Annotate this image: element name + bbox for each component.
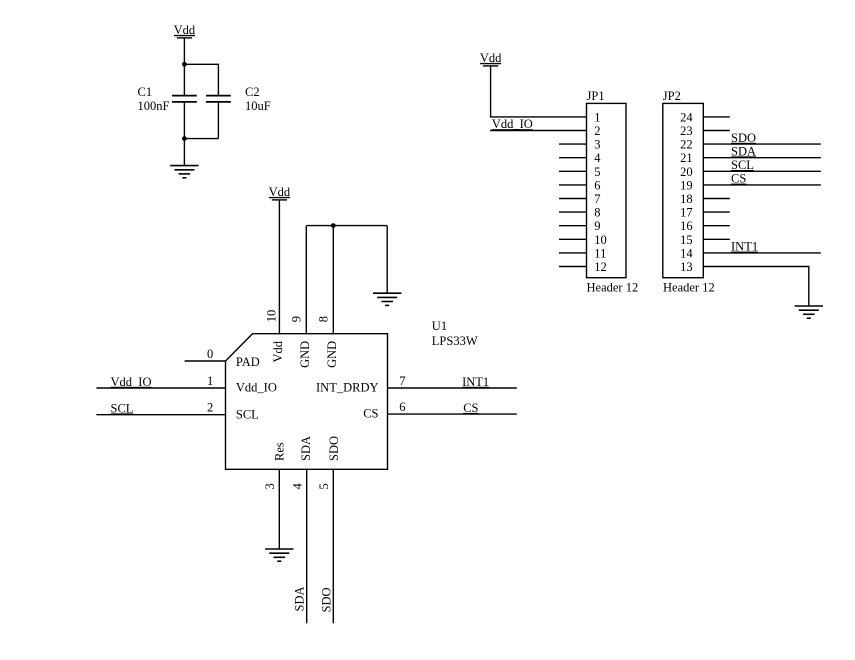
JP2 pin 17 stub	[703, 211, 730, 213]
svg-text:12: 12	[594, 260, 607, 274]
wire Vdd to JP1 pin 1	[491, 66, 587, 117]
svg-text:14: 14	[680, 246, 693, 260]
svg-text:5: 5	[594, 165, 600, 179]
junction node GND run	[331, 223, 336, 228]
wire top junction to C2 branch	[184, 64, 218, 95]
wire U1 pin 2	[96, 414, 225, 416]
wire Vdd_IO to JP1 pin 2	[490, 130, 587, 132]
svg-text:1: 1	[207, 374, 213, 388]
power symbol Vdd (decoupling rail)	[174, 23, 196, 38]
op IC U1 outline (chamfered corner)	[226, 334, 388, 470]
JP1 pin 4 stub	[559, 157, 587, 159]
wire U1 pin 0 PAD	[185, 360, 226, 362]
svg-text:PAD: PAD	[236, 355, 260, 369]
connector JP1	[587, 103, 627, 277]
svg-text:SCL: SCL	[111, 401, 134, 415]
svg-text:13: 13	[680, 260, 693, 274]
ground (decoupling)	[170, 166, 198, 178]
svg-text:SCL: SCL	[731, 158, 754, 172]
wire Vdd to U1 pin 10	[278, 200, 280, 334]
svg-text:6: 6	[399, 400, 405, 414]
JP1 pin 6 stub	[559, 184, 587, 186]
svg-text:21: 21	[680, 151, 693, 165]
power symbol Vdd (header supply)	[480, 51, 502, 66]
connector JP2	[663, 103, 704, 277]
wire U1 pin 9 up	[305, 226, 307, 334]
JP1 pin 12 stub	[559, 266, 587, 268]
svg-text:SDA: SDA	[731, 144, 756, 158]
svg-text:5: 5	[317, 483, 331, 489]
svg-text:C2: C2	[245, 85, 260, 99]
wire U1 pin 5 SDO down	[332, 469, 334, 623]
wire JP2 pin 13 to ground	[703, 267, 809, 307]
svg-text:10: 10	[265, 310, 279, 323]
JP1 pin numbers 1-12	[594, 110, 607, 274]
svg-text:INT1: INT1	[731, 240, 758, 254]
svg-text:2: 2	[594, 124, 600, 138]
wire U1 pin 6 CS	[388, 413, 517, 415]
wire Vdd to junction	[183, 38, 185, 64]
JP2 pin numbers 24-13	[680, 110, 693, 274]
wire junction to ground	[183, 139, 185, 166]
label C2 10uF	[245, 85, 271, 113]
svg-text:SDA: SDA	[299, 436, 313, 461]
JP1 pin 8 stub	[559, 211, 587, 213]
JP1 pin 3 stub	[559, 143, 587, 145]
svg-text:8: 8	[317, 316, 331, 322]
wire GND run	[306, 225, 387, 227]
JP2 pin 18 stub	[703, 198, 730, 200]
svg-text:7: 7	[594, 192, 600, 206]
svg-text:INT_DRDY: INT_DRDY	[316, 381, 379, 395]
svg-text:Vdd: Vdd	[480, 51, 502, 65]
wire U1 pin 8 up	[332, 226, 334, 334]
JP1 pin 11 stub	[559, 252, 587, 254]
svg-text:15: 15	[680, 233, 693, 247]
svg-text:C1: C1	[138, 85, 153, 99]
svg-text:Vdd_IO: Vdd_IO	[236, 381, 277, 395]
svg-text:Header 12: Header 12	[663, 281, 715, 295]
capacitor C2	[206, 96, 231, 139]
JP1 pin 7 stub	[559, 198, 587, 200]
power symbol Vdd (U1 supply)	[269, 185, 291, 200]
svg-text:GND: GND	[298, 341, 312, 368]
wire U1 pin 7 INT_DRDY	[388, 387, 517, 389]
svg-text:23: 23	[680, 124, 693, 138]
svg-text:19: 19	[680, 178, 693, 192]
svg-text:GND: GND	[325, 341, 339, 368]
svg-text:CS: CS	[463, 401, 478, 415]
svg-text:SDO: SDO	[731, 131, 756, 145]
svg-text:8: 8	[594, 206, 600, 220]
svg-text:SDA: SDA	[293, 586, 307, 611]
ground (U1 Res pin)	[265, 549, 293, 561]
svg-text:9: 9	[594, 219, 600, 233]
wire SDA (JP2 pin 21)	[703, 157, 821, 159]
svg-text:100nF: 100nF	[138, 99, 170, 113]
wire U1 pin 3 to ground	[278, 469, 280, 549]
ground (JP2 pin 13)	[795, 306, 823, 318]
svg-text:22: 22	[680, 138, 693, 152]
svg-text:JP1: JP1	[587, 89, 605, 103]
wire CS (JP2 pin 19)	[703, 184, 821, 186]
svg-text:SDO: SDO	[327, 436, 341, 461]
svg-text:20: 20	[680, 165, 693, 179]
svg-text:24: 24	[680, 110, 693, 124]
svg-text:6: 6	[594, 178, 600, 192]
svg-text:0: 0	[207, 347, 213, 361]
wire SDO (JP2 pin 22)	[703, 143, 821, 145]
svg-text:10uF: 10uF	[245, 99, 271, 113]
capacitor C1	[172, 64, 197, 138]
svg-text:4: 4	[291, 483, 305, 490]
svg-text:Header 12: Header 12	[587, 281, 639, 295]
svg-text:SCL: SCL	[236, 407, 259, 421]
svg-text:3: 3	[263, 483, 277, 489]
svg-text:SDO: SDO	[320, 587, 334, 612]
wire bottom branch	[184, 138, 218, 140]
JP2 pin 16 stub	[703, 225, 730, 227]
svg-text:7: 7	[399, 374, 405, 388]
svg-text:17: 17	[680, 206, 693, 220]
svg-text:CS: CS	[731, 172, 746, 186]
svg-text:CS: CS	[363, 407, 378, 421]
JP1 pin 5 stub	[559, 170, 587, 172]
svg-text:Vdd_IO: Vdd_IO	[111, 375, 152, 389]
svg-text:U1: U1	[432, 319, 447, 333]
junction node top	[182, 62, 187, 67]
svg-text:LPS33W: LPS33W	[432, 334, 478, 348]
svg-text:INT1: INT1	[462, 375, 489, 389]
wire U1 pin 1	[96, 387, 225, 389]
svg-text:Vdd: Vdd	[269, 185, 291, 199]
svg-text:9: 9	[290, 316, 304, 322]
JP2 pin 23 stub	[703, 130, 730, 132]
svg-text:18: 18	[680, 192, 693, 206]
label C1 100nF	[138, 85, 170, 113]
JP1 pin 9 stub	[559, 225, 587, 227]
junction node bottom	[182, 136, 187, 141]
svg-text:3: 3	[594, 138, 600, 152]
svg-text:11: 11	[594, 246, 606, 260]
svg-text:1: 1	[594, 110, 600, 124]
JP2 pin 15 stub	[703, 238, 730, 240]
wire U1 pin 4 SDA down	[306, 469, 308, 623]
svg-text:Vdd: Vdd	[271, 340, 285, 362]
svg-text:JP2: JP2	[663, 89, 681, 103]
svg-text:Vdd: Vdd	[174, 23, 196, 37]
svg-text:Vdd_IO: Vdd_IO	[492, 117, 533, 131]
JP1 pin 10 stub	[559, 238, 587, 240]
wire INT1 (JP2 pin 14)	[703, 252, 821, 254]
svg-text:10: 10	[594, 233, 607, 247]
svg-text:Res: Res	[273, 442, 287, 461]
wire SCL (JP2 pin 20)	[703, 170, 821, 172]
wire GND run drop	[386, 226, 388, 294]
svg-text:16: 16	[680, 219, 693, 233]
ground (U1 GND pins)	[373, 293, 401, 305]
svg-text:2: 2	[207, 401, 213, 415]
JP2 pin 24 stub	[703, 116, 730, 118]
svg-text:4: 4	[594, 151, 601, 165]
